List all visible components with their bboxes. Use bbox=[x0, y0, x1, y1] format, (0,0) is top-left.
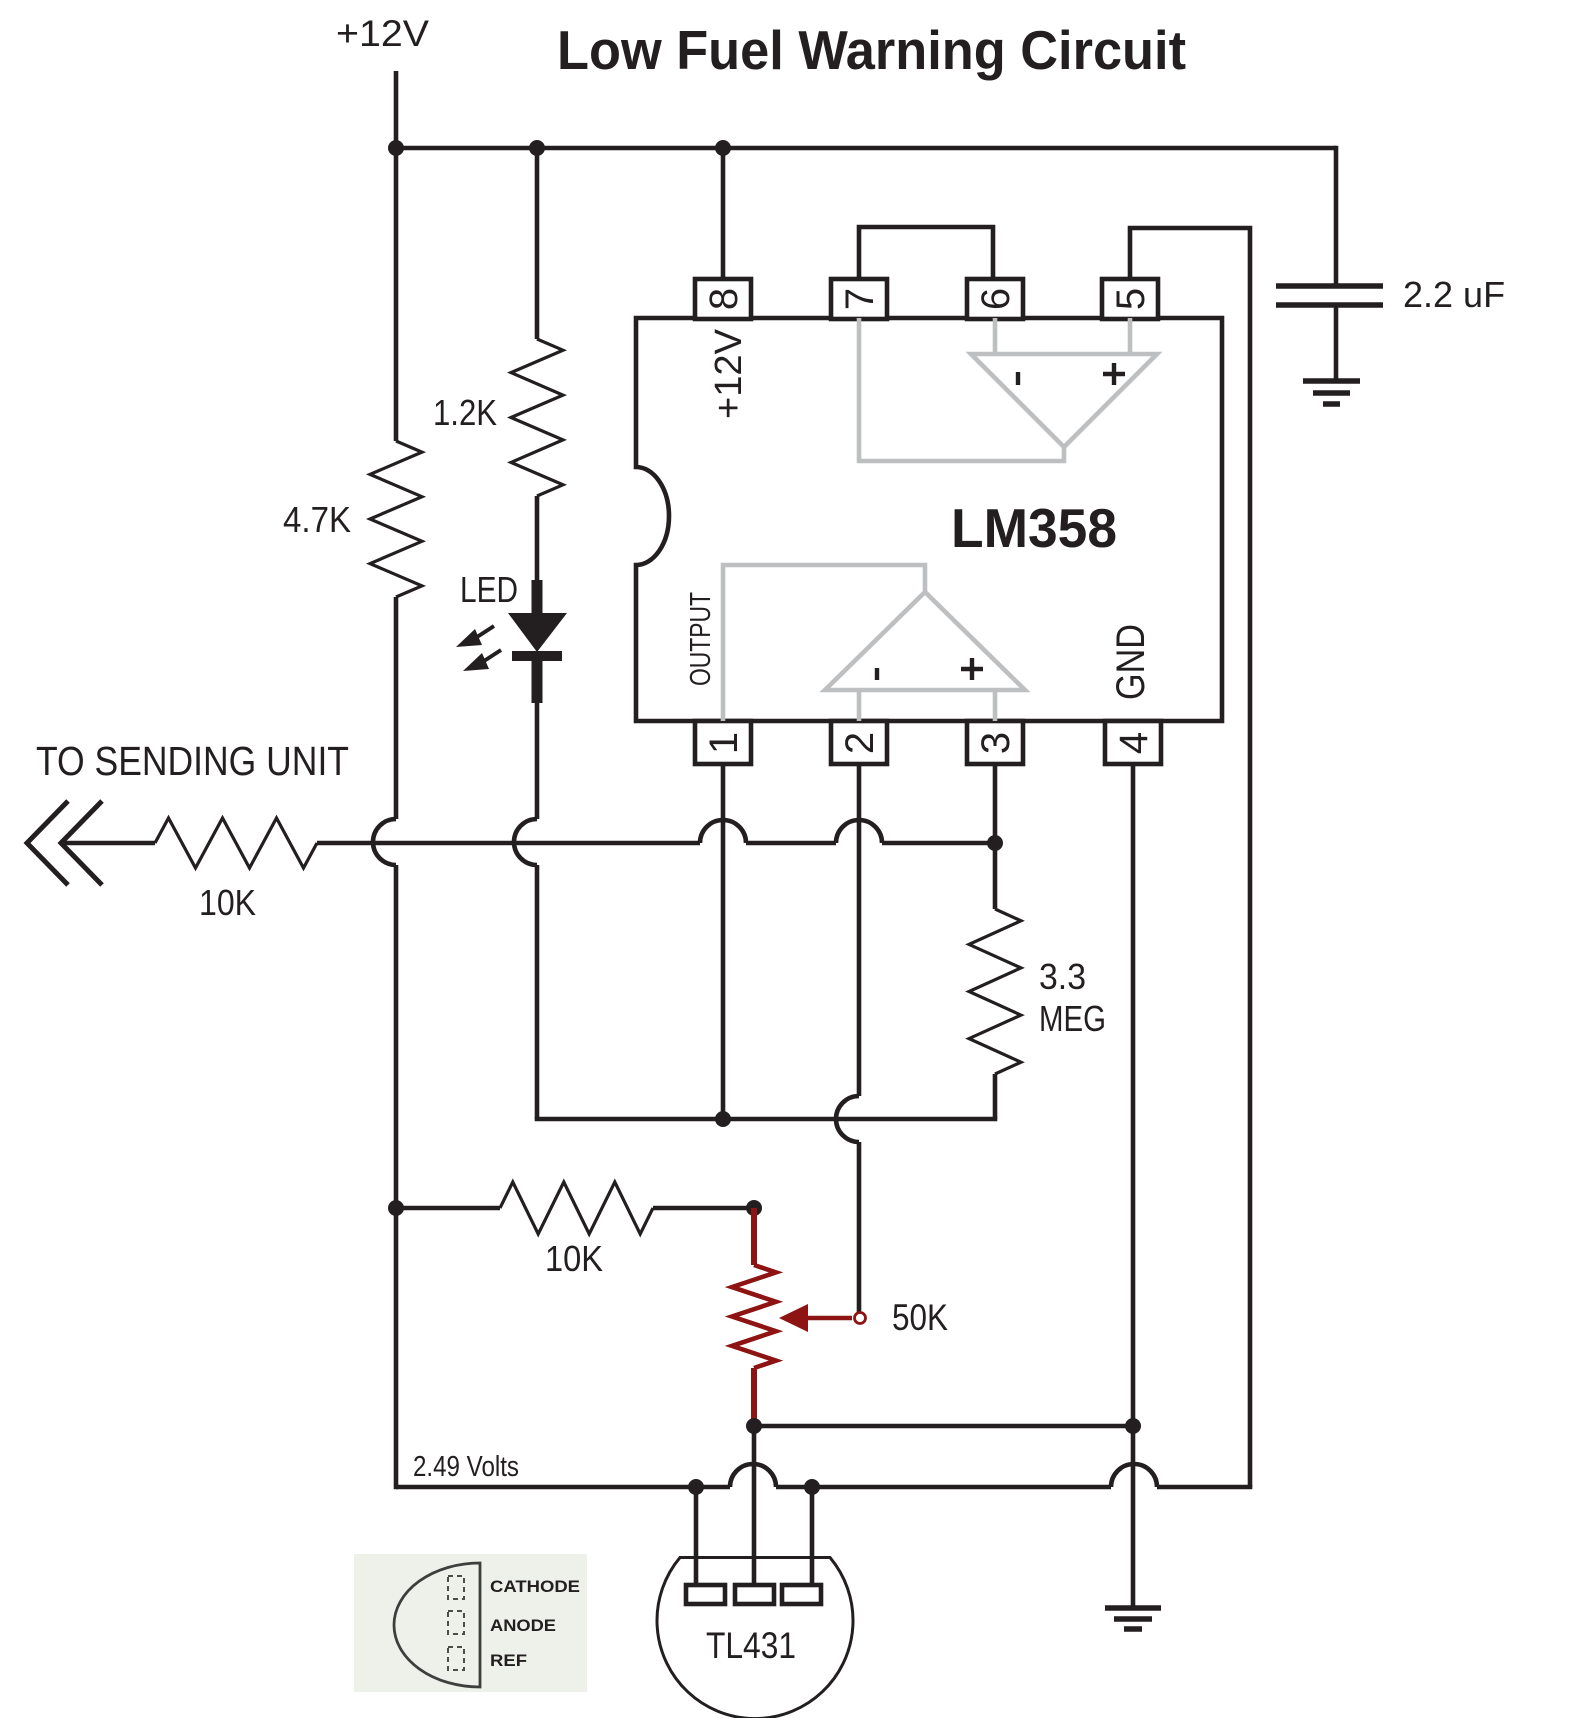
TL431 pinout legend inset bbox=[354, 1554, 587, 1692]
wire bridge pin7 to pin6 bbox=[859, 227, 993, 279]
junction dot pin1 node bbox=[715, 1111, 731, 1127]
svg-text:REF: REF bbox=[490, 1652, 527, 1670]
wire +12V vertical feed bbox=[394, 71, 399, 441]
wire LED down bbox=[535, 701, 540, 1119]
op-amp U1B (pins 1,2,3) internals bbox=[723, 565, 1025, 721]
junction dot node pin3 bbox=[987, 835, 1003, 851]
op-amp U1A input signs bbox=[1018, 363, 1125, 385]
pin 7 box bbox=[831, 279, 887, 319]
junction dot rail-4.7K bbox=[388, 140, 404, 156]
svg-text:50K: 50K bbox=[892, 1297, 948, 1338]
wire TL431 cathode lead bbox=[694, 1487, 699, 1586]
wire rail to 1.2K bbox=[535, 148, 540, 339]
svg-text:GND: GND bbox=[1109, 624, 1153, 700]
wire left-rail to 10K bbox=[396, 1206, 500, 1211]
TL431 pad anode bbox=[782, 1585, 821, 1604]
pot wiper arrow bbox=[779, 1304, 866, 1332]
junction dot pot top bbox=[746, 1200, 762, 1216]
junction dot rail-pin8 bbox=[715, 140, 731, 156]
junction dot rail-10K bbox=[388, 1200, 404, 1216]
resistor 4.7K bbox=[370, 441, 422, 597]
svg-text:2: 2 bbox=[838, 732, 882, 754]
potentiometer 50K R5 bbox=[732, 1208, 776, 1426]
junction dot rail-1.2K bbox=[529, 140, 545, 156]
TL431 U2 package outline bbox=[657, 1558, 853, 1718]
pin 3 box bbox=[967, 721, 1023, 764]
wire pin2 down to wiper bbox=[857, 765, 862, 1312]
wire pin3 down bbox=[993, 765, 998, 909]
op-amp U1A (pins 5,6,7) internals bbox=[859, 318, 1157, 461]
svg-text:TL431: TL431 bbox=[706, 1625, 796, 1666]
svg-text:LED: LED bbox=[460, 569, 518, 610]
svg-text:7: 7 bbox=[838, 288, 882, 310]
wire sending left lead bbox=[61, 841, 155, 846]
TL431 pad ref bbox=[735, 1585, 774, 1604]
junction dot pot bottom bbox=[746, 1418, 762, 1434]
svg-text:3: 3 bbox=[974, 732, 1018, 754]
svg-text:1: 1 bbox=[702, 732, 746, 754]
wire TL431 ref lead bbox=[752, 1426, 757, 1586]
wire hop pin2 over node wire bbox=[836, 1096, 859, 1142]
wire pin4 down to ground bbox=[1131, 765, 1136, 1606]
junction dot ref-pin4line bbox=[1125, 1418, 1141, 1434]
wire hop LED-wire over sending wire bbox=[514, 819, 537, 865]
svg-text:4: 4 bbox=[1112, 732, 1156, 754]
svg-text:CATHODE: CATHODE bbox=[490, 1578, 580, 1596]
ground capacitor bbox=[1303, 381, 1360, 404]
connector chevrons to sending unit bbox=[27, 801, 102, 885]
ground pin4 bbox=[1105, 1608, 1161, 1629]
wire hop left-rail over sending wire bbox=[373, 819, 396, 865]
svg-text:TO SENDING UNIT: TO SENDING UNIT bbox=[36, 738, 349, 784]
wire hop over pin1 wire bbox=[700, 820, 746, 843]
svg-text:10K: 10K bbox=[545, 1238, 603, 1279]
TL431 pad cathode bbox=[686, 1585, 725, 1604]
svg-text:LM358: LM358 bbox=[951, 497, 1117, 559]
LED D1 bbox=[508, 580, 567, 703]
op-amp U1B input signs bbox=[877, 658, 983, 680]
svg-text:+12V: +12V bbox=[708, 328, 750, 419]
wire sending to pin3 node bbox=[317, 841, 995, 846]
wire 1.2K to LED bbox=[535, 496, 540, 583]
resistor 10K trim bbox=[500, 1182, 653, 1234]
svg-text:10K: 10K bbox=[199, 882, 256, 923]
resistor 1.2K bbox=[511, 339, 563, 496]
wire TL431 anode lead bbox=[810, 1487, 815, 1586]
pin 1 box bbox=[695, 721, 751, 764]
pin 2 box bbox=[831, 721, 887, 764]
svg-text:8: 8 bbox=[702, 288, 746, 310]
wire pin5 to reference node bbox=[1130, 228, 1250, 1487]
wire pin1 down bbox=[721, 765, 726, 1119]
junction dot TL431 cathode bbox=[688, 1479, 704, 1495]
LED emission arrows bbox=[456, 626, 501, 671]
wire reference node to pin4 line bbox=[754, 1424, 1133, 1429]
svg-text:OUTPUT: OUTPUT bbox=[685, 592, 717, 686]
wire hop bottom over GND lead bbox=[1111, 1464, 1157, 1487]
svg-text:6: 6 bbox=[974, 288, 1018, 310]
pin 8 box bbox=[695, 279, 751, 319]
wire 10K to pot top bbox=[653, 1206, 754, 1211]
resistor 3.3MEG bbox=[969, 909, 1021, 1074]
junction dot TL431 anode bbox=[804, 1479, 820, 1495]
svg-text:4.7K: 4.7K bbox=[283, 499, 351, 540]
pin 6 box bbox=[967, 279, 1023, 319]
svg-text:+12V: +12V bbox=[336, 13, 429, 54]
svg-text:MEG: MEG bbox=[1039, 998, 1106, 1039]
svg-text:1.2K: 1.2K bbox=[433, 392, 497, 433]
pin 4 box bbox=[1105, 721, 1161, 764]
resistor 10K sending bbox=[155, 818, 317, 868]
wire top +12V rail bbox=[396, 146, 1336, 151]
wire hop over pin2 wire bbox=[836, 820, 882, 843]
wire hop bottom over TL431 ref lead bbox=[730, 1464, 776, 1487]
svg-text:2.49 Volts: 2.49 Volts bbox=[413, 1451, 519, 1483]
wire bottom rail bbox=[396, 1485, 1252, 1490]
svg-text:3.3: 3.3 bbox=[1039, 956, 1086, 997]
svg-text:Low Fuel Warning Circuit: Low Fuel Warning Circuit bbox=[557, 19, 1186, 81]
pin 5 box bbox=[1102, 279, 1158, 319]
wire node LED/pin1/3.3MEG bbox=[535, 1117, 998, 1122]
label 3.3 MEG bbox=[1039, 956, 1106, 1039]
svg-text:2.2 uF: 2.2 uF bbox=[1403, 274, 1505, 315]
wire 4.7K down to corner bbox=[394, 597, 399, 1489]
wire 3.3MEG bottom bbox=[993, 1074, 998, 1119]
capacitor C1 2.2uF bbox=[1276, 146, 1383, 380]
wire pin8 to rail bbox=[721, 148, 726, 279]
svg-text:5: 5 bbox=[1109, 288, 1153, 310]
op-amp IC U1 LM358 body bbox=[636, 318, 1222, 721]
svg-text:ANODE: ANODE bbox=[490, 1617, 556, 1635]
